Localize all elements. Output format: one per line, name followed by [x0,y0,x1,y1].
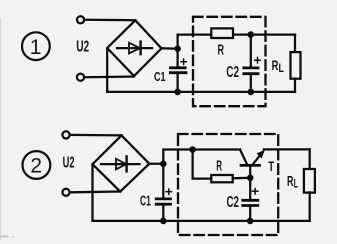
wire: bottom terminal to bridge bottom corner [85,75,134,78]
svg-text:U2: U2 [63,154,75,171]
svg-text:R: R [218,42,225,59]
junction dot on top rail (R branch) [189,146,196,153]
svg-text:C1: C1 [140,194,151,210]
wire: riser and top rail (circuit 1) [178,35,295,49]
junction dot C2 bottom [248,89,255,96]
diode D1 inside bridge [117,42,152,55]
svg-text:R: R [216,158,222,174]
svg-text:L: L [279,63,284,75]
svg-text:L: L [294,178,298,190]
faint scan specks bottom-left [0,236,9,238]
load resistor RL (circuit 2) [304,149,315,221]
plus sign of C1 (circuit 2) [166,189,171,194]
circled number 2 [23,151,51,179]
collector lead [240,150,247,165]
svg-text:C2: C2 [227,194,239,211]
plus sign of C2 [255,58,260,63]
plus sign of C1 [181,59,186,64]
terminal bottom (circuit 1) [77,74,84,81]
transistor T (series pass NPN) [240,149,310,177]
wire: bottom terminal to bridge bottom corner [70,190,120,193]
bridge rectifier diamond (circuit 1) [107,20,161,76]
circled number 1 [22,32,50,60]
svg-text:C2: C2 [226,64,239,81]
svg-text:T: T [268,159,274,174]
svg-text:R: R [287,173,293,190]
load resistor RL (circuit 1) [291,35,301,92]
bottom rail (circuit 2) [93,220,310,222]
dashed stabiliser box (circuit 2) [178,134,278,235]
node B junction dot (base / C2 node) [247,175,254,182]
emitter wire to RL [264,148,310,150]
wire: bridge right corner to C1 node [149,163,163,165]
base bar [241,164,260,167]
svg-text:2: 2 [30,155,42,178]
node A2 junction dot [160,161,167,168]
capacitor C1 (circuit 1) [170,49,186,92]
plus sign of C2 (circuit 2) [252,189,257,194]
svg-text:1: 1 [30,36,42,59]
wire: bridge left corner down to bottom rail [106,49,108,92]
capacitor C2 (circuit 1) [244,35,258,92]
junction dot C1 bottom [174,89,181,96]
node A1 junction dot [174,45,181,52]
wire: bridge right corner to C1 node [162,47,178,50]
diode D2 inside bridge [101,156,140,171]
wire: top terminal to bridge top corner [70,134,121,137]
svg-text:U2: U2 [76,39,89,56]
terminal top (circuit 2) [62,131,69,138]
junction dot C2 bottom (circuit 2) [247,218,254,225]
terminal top (circuit 1) [77,16,84,23]
capacitor C2 (circuit 2) [243,178,258,221]
dashed stabiliser box (circuit 1) [193,17,266,106]
capacitor C1 (circuit 2) [156,164,170,221]
faint scan edge artifact left [0,18,1,240]
wire: top terminal to bridge top corner [85,19,135,22]
junction dot C1 bottom (circuit 2) [160,218,167,225]
resistor R1 box [211,28,233,38]
base lead [249,165,251,177]
junction dot on top rail (C2 node) [248,31,255,38]
wire: bridge left corner down to bottom rail [91,164,93,221]
wire: R branch down and to resistor [193,150,212,179]
resistor R2 box [211,175,232,182]
emitter lead with arrow [253,155,261,165]
bottom rail (circuit 1) [107,91,295,93]
wire: riser and top rail (circuit 2) [163,150,240,164]
bridge rectifier diamond (circuit 2) [93,135,150,191]
svg-text:R: R [272,57,279,73]
wire: resistor to base node [233,177,251,180]
terminal bottom (circuit 2) [62,189,69,196]
svg-text:C1: C1 [154,70,166,84]
